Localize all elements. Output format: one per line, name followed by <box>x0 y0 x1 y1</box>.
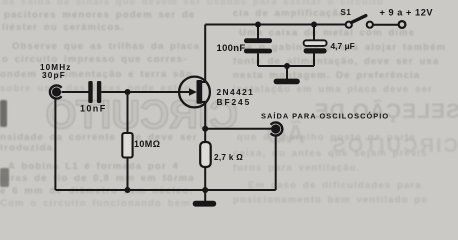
svg-text:2N4421: 2N4421 <box>217 87 255 97</box>
svg-text:30pF: 30pF <box>42 71 66 80</box>
ground GND1 <box>274 79 300 85</box>
svg-text:SAÍDA PARA OSCILOSCÓPIO: SAÍDA PARA OSCILOSCÓPIO <box>261 112 389 121</box>
switch S1 lever <box>351 16 365 23</box>
node: gate junction <box>125 89 131 95</box>
transistor Q1 drain lead <box>202 25 205 83</box>
svg-text:da saída de sinais que devem: da saída de sinais que devem ser usados … <box>2 0 384 8</box>
node: R1 bottom junction <box>125 187 131 193</box>
input jack J1 ring <box>50 85 62 98</box>
transistor Q1 source lead <box>202 102 205 142</box>
wire R2 to ground rail <box>204 167 206 190</box>
svg-text:furos para ventilação.: furos para ventilação. <box>233 163 360 174</box>
svg-text:nesta montagem. De preferência: nesta montagem. De preferência <box>233 70 420 81</box>
component value labels <box>40 7 433 161</box>
switch S1 left contact <box>346 22 352 28</box>
svg-text:Com o circuito funcionando bem: Com o circuito funcionando bem <box>0 198 191 209</box>
wire C3 down <box>313 54 315 67</box>
transistor Q1 body circle <box>179 77 210 108</box>
node: ground junction <box>202 187 208 193</box>
top supply rail wire <box>205 24 346 26</box>
wire joining C2 and C3 bottoms <box>258 65 314 67</box>
svg-text:A bobina L1 é formada por 4: A bobina L1 é formada por 4 <box>8 161 179 172</box>
svg-text:Observe que as trilhas da plac: Observe que as trilhas da placa <box>12 41 200 52</box>
resistor R1 10M <box>122 133 132 158</box>
svg-text:posicionamento bem ventilado p: posicionamento bem ventilado po <box>233 195 428 206</box>
svg-text:4,7 μF: 4,7 μF <box>331 41 355 51</box>
wire C1 to gate of Q1 <box>101 91 190 93</box>
svg-text:+ 9 a + 12V: + 9 a + 12V <box>380 7 434 17</box>
wire to C2 <box>257 25 259 39</box>
node: source/output junction <box>202 126 208 132</box>
svg-text:10nF: 10nF <box>80 104 107 114</box>
node: C3 top junction <box>311 22 317 28</box>
wire input jack shield down <box>54 99 56 190</box>
svg-text:Uma caixa de metal com dime: Uma caixa de metal com dime <box>239 28 415 39</box>
svg-text:100nF: 100nF <box>217 43 246 54</box>
wire S1 to supply terminal <box>373 24 399 26</box>
output jack J2 center pin <box>271 124 280 133</box>
wire stub to ground GND2 <box>204 190 206 201</box>
output jack J2 ring <box>271 122 283 135</box>
svg-text:o circuito impresso que corres: o circuito impresso que corres- <box>2 54 188 65</box>
resistor R2 2.7k <box>200 142 211 167</box>
wire J2 shield to ground rail <box>275 136 277 190</box>
capacitor C3 4.7uF negative plate <box>304 48 327 53</box>
input jack J1 center pin <box>52 87 61 96</box>
wire stub to ground GND1 <box>286 66 288 79</box>
wire to C3 <box>313 25 315 41</box>
transistor Q1 channel bar <box>197 80 203 104</box>
svg-text:cia de amplificação.: cia de amplificação. <box>233 8 350 19</box>
svg-text:CIRCUITOS: CIRCUITOS <box>330 135 458 157</box>
svg-text:troduzida.: troduzida. <box>0 143 57 154</box>
switch S1 right contact <box>367 22 373 28</box>
ground GND2 <box>193 201 217 207</box>
supply terminal +9..12V <box>399 21 406 28</box>
node: C2 top junction <box>255 22 261 28</box>
wire C2 down <box>257 53 259 66</box>
capacitor C2 100nF <box>244 38 272 53</box>
capacitor C1 10nF <box>88 81 101 103</box>
large show-through watermark letters (mirrored) <box>0 93 458 187</box>
wire R1 to ground rail <box>127 158 129 191</box>
svg-text:piras de fio de 0,8 mm em fôrm: piras de fio de 0,8 mm em fôrma <box>0 173 195 184</box>
svg-text:BF245: BF245 <box>217 97 252 107</box>
svg-text:liéster ou cerâmicos.: liéster ou cerâmicos. <box>2 22 125 33</box>
svg-text:2,7 k Ω: 2,7 k Ω <box>214 153 243 162</box>
svg-text:S1: S1 <box>341 8 352 17</box>
wire junction down to R1 <box>127 92 129 134</box>
svg-text:pacitores menores podem ser de: pacitores menores podem ser de <box>4 10 195 21</box>
wire input to C1 <box>62 91 89 93</box>
bottom ground rail wire <box>55 189 275 191</box>
svg-text:ondem à alimentação e terra sã: ondem à alimentação e terra são <box>0 69 193 80</box>
node: decoupling ground junction <box>284 63 290 69</box>
wire to output jack <box>205 128 271 130</box>
capacitor C3 4.7uF positive plate <box>304 40 327 46</box>
svg-text:instalação em uma placa deve s: instalação em uma placa deve ser <box>233 84 433 95</box>
svg-text:10MΩ: 10MΩ <box>134 139 160 149</box>
transistor Q1 gate arrow <box>189 88 197 96</box>
